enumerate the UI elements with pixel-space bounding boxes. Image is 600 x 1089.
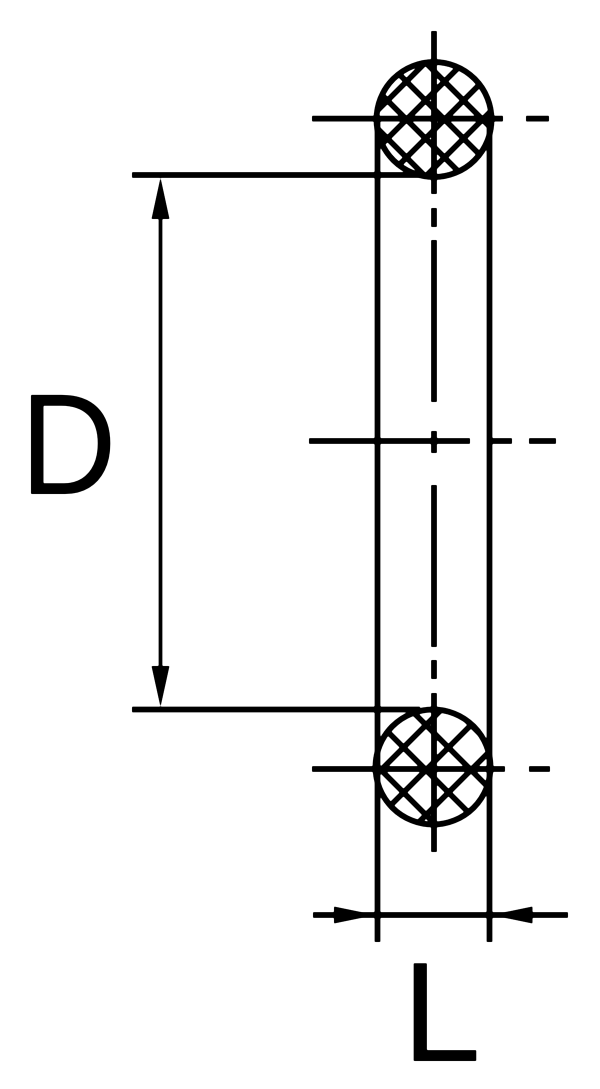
arrowhead L left [334, 907, 376, 924]
outline circle of bottom cross-section [376, 710, 491, 825]
label D [20, 373, 117, 517]
outline circle of top cross-section [377, 62, 492, 177]
right silhouette line of O-ring [487, 119, 493, 942]
bottom extension line for dimension D [132, 707, 420, 713]
top extension line for dimension D [132, 172, 420, 178]
dimension line L [313, 912, 568, 918]
horizontal centerline of top cross-section [312, 116, 549, 122]
left silhouette line of O-ring [375, 119, 381, 942]
vertical dash-dot centerline (axis of O-ring cross-section) [431, 31, 437, 852]
arrowhead L right [491, 907, 533, 924]
arrowhead D bottom [152, 666, 170, 707]
middle horizontal centerline of O-ring [309, 438, 556, 444]
arrowhead D top [152, 178, 170, 220]
label L [402, 942, 481, 1084]
horizontal centerline of bottom cross-section [312, 766, 550, 772]
dimension line D [159, 200, 163, 690]
crosshatch of bottom cross-section [274, 702, 584, 832]
crosshatch of top cross-section [303, 55, 548, 185]
